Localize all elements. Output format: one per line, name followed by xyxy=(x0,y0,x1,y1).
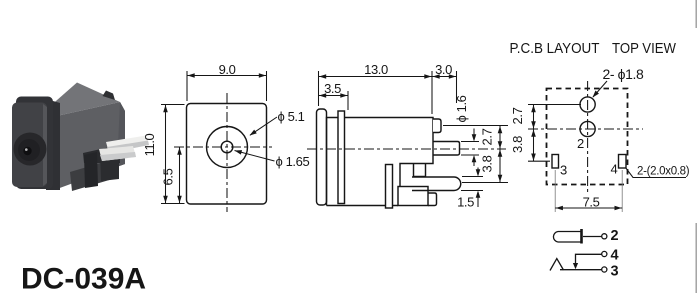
switch contact arrow xyxy=(573,263,578,269)
body bottom line xyxy=(327,205,399,207)
svg-text:3.0: 3.0 xyxy=(435,62,452,77)
flange plate xyxy=(338,111,345,204)
svg-text:3.8: 3.8 xyxy=(480,155,495,172)
dim 2.7 line xyxy=(499,126,501,150)
pcb leg xyxy=(386,165,393,209)
leader 2-phi1.8 xyxy=(593,81,607,97)
terminal 3 xyxy=(602,267,607,272)
top tab pin xyxy=(103,91,116,101)
body outline xyxy=(327,118,434,206)
body right shade xyxy=(117,102,125,167)
PCB LAYOUT VIEW xyxy=(547,89,628,185)
svg-text:TOP VIEW: TOP VIEW xyxy=(612,41,676,57)
dimension 3.5 xyxy=(347,91,349,110)
leader line 1.65 xyxy=(235,151,275,162)
flange front plate xyxy=(12,103,47,188)
body top face xyxy=(48,83,120,118)
switch lever xyxy=(550,259,564,271)
horizontal centerline xyxy=(174,146,272,148)
front nub xyxy=(317,109,327,205)
svg-text:2-(2.0x0.8): 2-(2.0x0.8) xyxy=(637,166,690,178)
side centerline xyxy=(307,148,506,150)
svg-text:6.5: 6.5 xyxy=(161,168,176,185)
ext lines 13.0 / 3.0 xyxy=(318,71,320,106)
phi1.6 ext lines xyxy=(461,141,479,143)
pcb vertical centerline xyxy=(587,81,589,193)
foot block xyxy=(398,187,428,206)
pad 3 xyxy=(552,155,559,169)
svg-text:P.C.B LAYOUT: P.C.B LAYOUT xyxy=(510,41,600,57)
svg-text:4: 4 xyxy=(611,248,619,264)
arm axis ext line xyxy=(462,182,508,184)
svg-text:2: 2 xyxy=(611,228,619,244)
svg-text:2: 2 xyxy=(577,136,584,151)
dimension 6.5 line xyxy=(179,147,181,204)
svg-text:3.5: 3.5 xyxy=(324,81,341,96)
SIDE VIEW xyxy=(317,109,461,208)
hole 2 xyxy=(580,121,595,136)
white contact lower xyxy=(99,146,136,161)
pad 4 xyxy=(619,155,627,169)
pcb horizontal centerline xyxy=(528,128,643,130)
center pin xyxy=(23,147,31,155)
dim 1.5 arrow stems xyxy=(477,168,479,176)
hole 1 xyxy=(580,97,595,112)
white contact upper shade xyxy=(107,141,149,154)
dim 7.5 line xyxy=(555,207,622,209)
svg-text:11.0: 11.0 xyxy=(142,133,157,156)
photo of DC jack component xyxy=(12,83,149,192)
dimension 13.0 line xyxy=(319,76,433,78)
flange back plate xyxy=(16,97,53,190)
top tab pin 2 xyxy=(433,119,441,133)
svg-text:9.0: 9.0 xyxy=(219,62,236,77)
dimension 11.0 extension lines xyxy=(161,104,185,106)
svg-text:2.7: 2.7 xyxy=(480,128,495,145)
dark gap band behind flange xyxy=(46,99,60,190)
slot notch xyxy=(414,164,426,177)
phi1.6 arrow stems xyxy=(473,129,475,141)
svg-text:3: 3 xyxy=(560,163,567,178)
dimension 11.0 line xyxy=(165,105,167,204)
svg-text:13.0: 13.0 xyxy=(364,62,388,77)
barrel recess xyxy=(14,133,47,166)
plug tip plate xyxy=(580,229,583,244)
terminal 4 xyxy=(602,251,607,256)
foot tab xyxy=(428,193,437,206)
svg-text:4: 4 xyxy=(611,162,618,177)
tab axis ext line xyxy=(443,125,508,127)
dimension 3.0 line xyxy=(432,76,457,78)
leg shadow wedge xyxy=(70,159,116,191)
pcb outline dashed xyxy=(547,89,628,185)
body front face xyxy=(48,102,125,189)
leader line 5.1 xyxy=(250,117,277,135)
dim 3.8 line xyxy=(533,129,535,161)
dimension 9.0 extension lines xyxy=(186,71,188,101)
wire pin2 xyxy=(583,236,602,238)
svg-text:DC-039A: DC-039A xyxy=(21,263,146,296)
svg-text:ϕ 1.6: ϕ 1.6 xyxy=(454,95,469,122)
flange plate right bevel xyxy=(43,104,47,186)
SCHEMATIC xyxy=(550,229,607,272)
svg-text:2- ϕ1.8: 2- ϕ1.8 xyxy=(603,66,644,82)
pcb leg 1 xyxy=(84,152,98,188)
svg-text:3.8: 3.8 xyxy=(510,136,525,153)
svg-text:7.5: 7.5 xyxy=(583,195,600,210)
FRONT VIEW xyxy=(187,104,267,205)
leg bracket bar xyxy=(83,145,120,163)
pcb leg 2 xyxy=(100,146,119,181)
hole1 ext line xyxy=(528,104,581,106)
terminal 2 xyxy=(602,234,607,239)
front view body outline xyxy=(187,104,267,205)
dimension 9.0 line xyxy=(187,75,267,77)
pin hole circle 1.65 xyxy=(221,141,233,153)
wire pin3 xyxy=(560,269,602,271)
dim 2.7 line xyxy=(533,105,535,130)
svg-text:1.5: 1.5 xyxy=(457,195,474,210)
wire pin4 xyxy=(576,254,602,263)
barrel circle 5.1 xyxy=(207,127,248,168)
vertical centerline xyxy=(226,93,228,212)
plug barrel xyxy=(553,232,581,243)
white contact upper xyxy=(106,136,149,154)
svg-text:3: 3 xyxy=(611,264,619,280)
switch arm xyxy=(412,177,461,191)
recess inner shade xyxy=(18,139,40,161)
pin highlight xyxy=(25,148,28,151)
pad ext line left xyxy=(528,160,550,162)
svg-text:ϕ 5.1: ϕ 5.1 xyxy=(278,109,305,124)
pad drop lines xyxy=(554,170,556,212)
dim 3.8 line xyxy=(499,149,501,183)
dim 1.5 ext lines xyxy=(462,176,483,178)
svg-text:ϕ 1.65: ϕ 1.65 xyxy=(276,154,310,169)
leader 2-(2.0x0.8) xyxy=(626,168,687,178)
white contact lower shade xyxy=(100,152,136,161)
center pin xyxy=(433,142,460,156)
svg-text:2.7: 2.7 xyxy=(510,107,525,124)
page edge artifact xyxy=(695,0,697,293)
